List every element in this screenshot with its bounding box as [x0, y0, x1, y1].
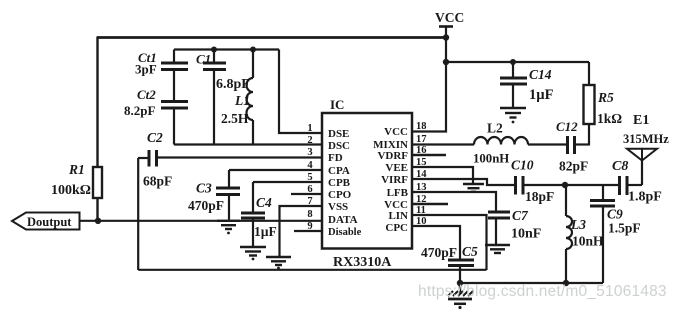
ground hatched below C5 [448, 283, 473, 304]
svg-text:C5: C5 [462, 244, 478, 259]
junction L1 top [250, 47, 256, 53]
wire tank to pin1 [279, 50, 322, 134]
svg-text:DSE: DSE [328, 128, 349, 140]
svg-text:LFB: LFB [387, 187, 409, 199]
svg-text:470pF: 470pF [188, 198, 224, 213]
svg-text:C12: C12 [556, 119, 578, 134]
svg-text:VCC: VCC [435, 10, 464, 25]
junction R1-Doutput [95, 218, 101, 224]
wire pin7 VSS [280, 206, 323, 256]
capacitor C1 [203, 50, 226, 145]
svg-text:DSC: DSC [328, 140, 350, 152]
pin numbers right [416, 121, 427, 227]
svg-text:R1: R1 [68, 162, 85, 177]
wire pin13 LFB [412, 192, 496, 211]
svg-text:100nH: 100nH [473, 152, 509, 166]
wire R5 bottom to C12 [575, 143, 590, 145]
wire pin17 MIXIN [412, 143, 474, 145]
svg-text:Doutput: Doutput [27, 215, 72, 229]
capacitor C5 [448, 260, 474, 283]
svg-text:VEE: VEE [385, 162, 408, 174]
svg-text:DATA: DATA [328, 214, 358, 226]
svg-text:C7: C7 [512, 208, 529, 223]
svg-text:VDRF: VDRF [377, 150, 408, 162]
svg-text:VCC: VCC [384, 126, 408, 138]
capacitor C2 [138, 150, 322, 167]
svg-text:L2: L2 [487, 121, 503, 136]
svg-text:L3: L3 [570, 217, 586, 232]
svg-text:C14: C14 [529, 67, 552, 82]
capacitor C10 [516, 176, 566, 195]
svg-text:C4: C4 [256, 195, 272, 210]
svg-text:C8: C8 [612, 159, 628, 174]
svg-text:FD: FD [328, 152, 343, 164]
svg-text:17: 17 [416, 134, 427, 145]
svg-text:1µF: 1µF [529, 87, 554, 103]
inductor L3 [566, 185, 572, 283]
wire pin5 CPB [253, 181, 322, 183]
svg-text:CPA: CPA [328, 165, 350, 177]
svg-text:68pF: 68pF [143, 174, 172, 189]
svg-text:470pF: 470pF [421, 245, 457, 260]
wire pin4 CPA [229, 169, 322, 171]
wire junction to C8 [565, 184, 619, 186]
svg-text:C9: C9 [607, 207, 623, 222]
svg-text:1.8pF: 1.8pF [628, 190, 662, 205]
svg-text:LIN: LIN [388, 210, 408, 222]
wire C2 left vertical down [137, 158, 139, 270]
svg-text:2.5H: 2.5H [221, 111, 249, 126]
svg-text:3pF: 3pF [135, 62, 157, 77]
ground VEE [463, 184, 484, 192]
ground below pin7 [266, 257, 291, 265]
svg-text:8.2pF: 8.2pF [124, 103, 155, 118]
wire VCC to C14 and R5 [446, 61, 589, 63]
svg-text:8: 8 [307, 209, 312, 220]
ground below C3 [217, 221, 240, 229]
svg-text:10nF: 10nF [511, 227, 541, 242]
svg-text:315MHz: 315MHz [623, 132, 669, 146]
junction C5 bottom [457, 280, 463, 286]
wire pin6 CPO stub [291, 193, 322, 195]
svg-text:R5: R5 [597, 90, 614, 105]
wire pin12 VCC stub [412, 203, 448, 205]
antenna E1 [627, 149, 657, 185]
capacitor Ct1 [161, 50, 188, 101]
svg-text:E1: E1 [633, 113, 649, 128]
ground below C7 [485, 245, 510, 253]
pin name labels right [373, 126, 408, 234]
svg-text:1.5pF: 1.5pF [608, 221, 641, 236]
wire top rail [97, 36, 446, 39]
svg-text:https://blog.csdn.net/m0_51061: https://blog.csdn.net/m0_51061483 [418, 283, 667, 300]
svg-text:CPO: CPO [328, 189, 352, 201]
wire pin15 VEE [412, 167, 473, 183]
svg-text:1kΩ: 1kΩ [597, 111, 622, 126]
Doutput connector [12, 213, 80, 230]
svg-text:L1: L1 [234, 93, 250, 108]
resistor R5 [584, 62, 595, 146]
svg-text:100kΩ: 100kΩ [51, 183, 91, 198]
wire tank top rail [174, 48, 279, 50]
svg-text:18pF: 18pF [525, 189, 554, 204]
capacitor Ct2 [161, 102, 188, 145]
wire R1 to Doutput node [96, 198, 98, 222]
junction VCC C14 rail [443, 59, 449, 65]
wire VCC vertical down to pin18 row [412, 27, 446, 132]
capacitor C14 [500, 62, 527, 107]
wire bottom right rail [460, 282, 603, 284]
svg-text:VSS: VSS [328, 201, 348, 213]
svg-text:C3: C3 [196, 181, 212, 196]
svg-text:IC: IC [330, 97, 344, 112]
svg-text:Disable: Disable [328, 227, 362, 238]
svg-text:1µF: 1µF [254, 224, 277, 239]
wire pin16 VDRF stub [412, 154, 446, 156]
wire DATA line to pin 8 [80, 220, 323, 222]
junction C14 top [510, 59, 516, 65]
pin name labels left [328, 128, 362, 238]
ground below C14 [500, 108, 526, 118]
capacitor C7 [488, 212, 510, 244]
capacitor C8 [620, 176, 643, 195]
inductor L1 [247, 50, 254, 145]
junction C10 L3 [562, 182, 568, 188]
wire bottom LIN return [138, 269, 486, 271]
svg-text:C2: C2 [147, 130, 163, 145]
junction L3 bottom [563, 280, 569, 286]
capacitor C4 [241, 182, 265, 246]
svg-text:Ct2: Ct2 [137, 87, 156, 102]
svg-text:C1: C1 [196, 52, 211, 67]
wire tank bottom rail to pin 2 [174, 143, 322, 145]
VCC terminal bar [439, 25, 453, 28]
wire pin14 VIRF [412, 179, 515, 185]
IC U1 RX3310A body [322, 113, 412, 249]
wire pin10 CPC [412, 226, 460, 259]
pin numbers left [307, 123, 313, 232]
svg-text:6.8pF: 6.8pF [216, 77, 250, 92]
junction C1 top [211, 47, 217, 53]
wire left vertical to R1 [96, 37, 98, 168]
resistor R1 [93, 167, 102, 198]
capacitor C9 [590, 185, 615, 283]
ground below C4 [240, 247, 266, 256]
wire pin11 LIN [412, 215, 487, 270]
svg-text:82pF: 82pF [559, 159, 588, 174]
svg-text:10nH: 10nH [572, 234, 604, 249]
junction VCC top rail [443, 34, 449, 40]
svg-text:3: 3 [307, 147, 312, 158]
inductor L2 [474, 137, 528, 144]
svg-text:18: 18 [416, 121, 427, 132]
svg-text:C10: C10 [511, 158, 534, 173]
capacitor C3 [216, 170, 240, 220]
svg-text:CPB: CPB [328, 177, 351, 189]
svg-text:CPC: CPC [385, 222, 408, 234]
wire pin9 Disable stub [294, 230, 322, 232]
capacitor C12 [528, 136, 575, 154]
svg-text:RX3310A: RX3310A [333, 255, 392, 270]
svg-text:VIRF: VIRF [381, 174, 408, 186]
